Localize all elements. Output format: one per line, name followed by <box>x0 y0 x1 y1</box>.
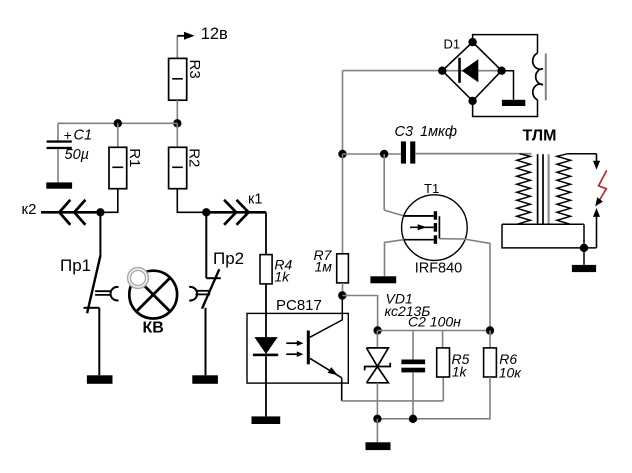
svg-text:T1: T1 <box>424 181 439 196</box>
svg-text:R1: R1 <box>126 148 143 167</box>
wire D1 top to coil <box>473 35 538 54</box>
svg-text:Пр2: Пр2 <box>213 249 244 268</box>
svg-text:D1: D1 <box>444 37 461 52</box>
wire Pr2 bottom <box>205 308 207 376</box>
lamp reflector ring <box>128 268 149 289</box>
wire Pr1 top <box>99 212 101 255</box>
wire VD1 top lead <box>376 331 378 348</box>
node C1-R1 rail <box>114 119 122 127</box>
diode D1 cathode bar <box>458 58 461 83</box>
resistor R2 <box>169 147 187 188</box>
wire R1 top lead <box>117 123 119 147</box>
node C3 gate tap <box>380 150 388 158</box>
wire R1 bottom jog <box>100 189 117 213</box>
wire R5 top lead <box>442 331 444 348</box>
svg-text:12в: 12в <box>201 25 228 43</box>
node D1 top <box>468 38 476 46</box>
connector k2 chevron1 <box>59 200 70 225</box>
resistor R6 <box>484 348 497 377</box>
wire collector up <box>341 296 343 321</box>
svg-text:C1: C1 <box>74 128 93 144</box>
phototransistor collector <box>310 320 343 337</box>
wire to TLM ground <box>583 248 585 265</box>
spark electrode top <box>596 154 598 162</box>
spark electrode bottom <box>593 208 600 217</box>
diode D1 triangle <box>462 59 479 82</box>
wire gate diagonal <box>384 210 404 216</box>
wire LED to ground <box>265 356 267 416</box>
light arrow 1 <box>286 342 297 344</box>
svg-text:ТЛМ: ТЛМ <box>523 128 557 145</box>
wire TLM primary top <box>415 153 519 155</box>
T1 source line <box>404 239 434 241</box>
resistor R7 <box>337 254 349 283</box>
zener VD1 upper triangle <box>367 348 389 367</box>
capacitor C3 <box>401 141 406 163</box>
wire emitter rail <box>342 400 444 402</box>
resistor R5 <box>437 348 450 377</box>
wire TLM bottom loop <box>502 224 597 248</box>
relay coil <box>533 53 543 100</box>
wire D1 left <box>343 70 444 72</box>
lamp KV cross <box>136 278 170 312</box>
wire D1 bottom to coil <box>473 100 538 117</box>
svg-text:C3: C3 <box>395 124 414 140</box>
wire R6 top lead <box>489 331 491 348</box>
node C2 bottom <box>409 415 417 423</box>
emitter arrowhead <box>328 367 338 375</box>
wire D1 to C3 vertical <box>342 71 344 154</box>
ground under TLM <box>572 265 596 272</box>
transformer TLM core <box>537 154 539 224</box>
node C3 left <box>338 150 346 158</box>
connector k2 chevron2 <box>74 200 85 225</box>
connector k1 chevron2 <box>237 200 249 225</box>
wire top rail <box>58 122 177 124</box>
ground under C1 <box>46 182 72 188</box>
LED cathode bar <box>253 354 278 357</box>
wire C3 left <box>343 153 401 155</box>
wire C1 top lead <box>57 123 59 140</box>
relay coil core <box>545 54 547 101</box>
wire VD1 rail <box>378 330 490 332</box>
wire T1 gate lead <box>439 239 490 331</box>
wire D1 right to ground <box>502 71 514 100</box>
svg-text:1k: 1k <box>274 269 290 285</box>
optocoupler U1 box <box>247 313 348 383</box>
svg-text:10к: 10к <box>499 365 523 381</box>
switch Pr2 actuator arc <box>189 287 197 301</box>
wire C3 node to R7 <box>342 154 344 254</box>
svg-text:PC817: PC817 <box>276 297 322 314</box>
wire TLM bottom rail <box>502 223 584 225</box>
wire R4 to LED <box>265 284 267 337</box>
spark bolt arrowhead <box>595 197 603 206</box>
node VD1 top <box>373 326 381 334</box>
switch Pr2 links <box>195 290 210 292</box>
node TLM ground junction <box>580 244 588 252</box>
wire source to ground <box>385 240 404 277</box>
switch Pr2 top contact <box>206 277 221 279</box>
wire C2 top lead <box>412 331 414 360</box>
wire R2 bottom jog <box>177 189 206 213</box>
node k1 junction <box>202 208 210 216</box>
svg-text:КВ: КВ <box>143 320 164 337</box>
resistor R4 <box>260 255 272 284</box>
ground under T1 <box>370 276 396 283</box>
wire k1 to R4 <box>265 212 267 254</box>
wire k2 lead <box>41 211 100 214</box>
rectifier D1 diamond <box>442 42 501 101</box>
zener VD1 lower triangle <box>367 367 389 383</box>
node R3-R2 <box>173 119 181 127</box>
wire k1 lead <box>206 211 266 214</box>
wire R3 bottom <box>176 100 178 123</box>
ground under LED <box>252 416 281 424</box>
T1 channel bars <box>434 211 437 220</box>
T1 gate line <box>438 216 440 239</box>
power 12v arrow <box>176 36 178 59</box>
LED anode triangle <box>254 337 277 354</box>
node VD1 bottom <box>373 415 381 423</box>
svg-text:R2: R2 <box>185 148 202 167</box>
T1 body arrow <box>410 226 434 228</box>
transformer TLM secondary winding <box>557 154 571 225</box>
capacitor C2 <box>401 360 425 365</box>
wire emitter down <box>341 378 343 401</box>
node D1 bottom <box>468 97 476 105</box>
svg-text:C2 100н: C2 100н <box>408 314 461 330</box>
wire C1 bottom lead <box>57 149 59 182</box>
node R7-collector <box>338 291 346 299</box>
wire C3 right <box>415 153 531 155</box>
node k2 junction <box>96 208 104 216</box>
svg-text:1k: 1k <box>452 363 468 379</box>
switch Pr1 lever <box>87 255 101 313</box>
node R6 top <box>486 326 494 334</box>
switch Pr2 lever <box>202 269 219 309</box>
ground bottom center <box>366 442 391 450</box>
wire to bottom ground <box>376 419 378 443</box>
switch Pr1 links <box>95 290 111 292</box>
svg-text:к2: к2 <box>22 201 37 218</box>
diode D1 axis <box>442 70 501 72</box>
svg-text:IRF840: IRF840 <box>415 261 463 277</box>
connector k1 chevron1 <box>224 200 236 225</box>
wire TLM loop right <box>583 224 585 248</box>
ground under Pr1 <box>87 375 113 384</box>
T1 drain line <box>404 215 434 217</box>
svg-text:1мкф: 1мкф <box>420 124 457 140</box>
lamp KV circle <box>129 271 177 319</box>
svg-text:Пр1: Пр1 <box>60 256 91 275</box>
transistor T1 circle <box>402 195 468 261</box>
wire Pr2 top <box>205 212 207 278</box>
wire R2 top lead <box>176 123 178 147</box>
svg-text:1м: 1м <box>315 258 333 274</box>
light arrow 2 <box>286 353 297 355</box>
wire gate vertical <box>383 154 385 210</box>
transformer TLM primary winding <box>517 154 531 225</box>
switch Pr1 bottom contact <box>84 307 100 309</box>
phototransistor emitter <box>310 358 342 378</box>
wire VD1 bottom lead <box>376 383 378 419</box>
node D1 left <box>438 67 446 75</box>
node D1 right <box>497 67 505 75</box>
wire C2 bottom lead <box>412 372 414 418</box>
wire R5 bottom lead <box>442 377 444 401</box>
ground under Pr2 <box>192 375 218 384</box>
svg-text:R3: R3 <box>186 60 203 79</box>
svg-text:50µ: 50µ <box>65 147 89 163</box>
capacitor C1 <box>47 140 72 142</box>
resistor R1 <box>109 147 127 188</box>
wire node to VD1 rail <box>342 296 377 331</box>
phototransistor base bar <box>307 331 310 365</box>
spark bolt <box>598 170 607 203</box>
wire R6 bottom <box>377 377 490 419</box>
zener VD1 bar <box>365 363 391 371</box>
switch Pr1 actuator arc <box>111 287 119 301</box>
resistor R3 <box>169 58 187 100</box>
ground near D1 <box>502 100 525 106</box>
wire TLM secondary top <box>568 153 597 155</box>
wire Pr1 bottom <box>98 308 100 376</box>
wire R7 bottom <box>342 283 344 296</box>
svg-text:к1: к1 <box>248 192 262 208</box>
svg-text:+: + <box>64 128 72 143</box>
